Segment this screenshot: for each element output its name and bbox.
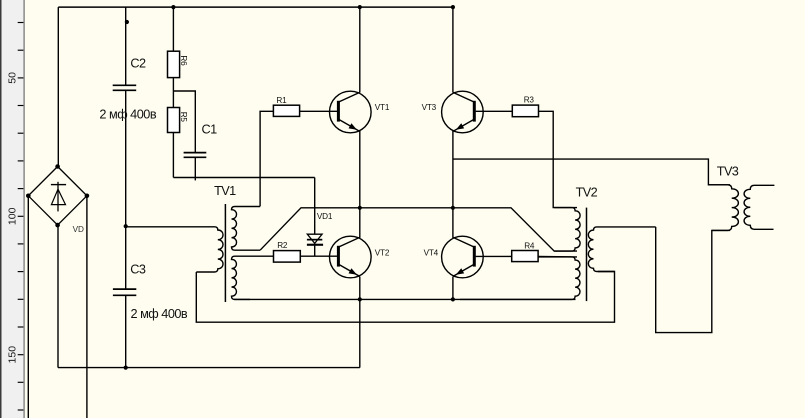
value label C3 (131, 307, 188, 321)
wire (260, 208, 577, 251)
svg-text:TV3: TV3 (717, 164, 739, 178)
svg-text:VT2: VT2 (375, 248, 390, 257)
wire (125, 90, 127, 288)
junction C3 bottom (124, 366, 128, 370)
wire (452, 277, 454, 300)
svg-text:C1: C1 (202, 123, 218, 137)
ruler (0, 0, 25, 418)
wire (172, 7, 174, 51)
wire (359, 299, 361, 367)
wire (539, 111, 578, 207)
svg-text:2 мф 400в: 2 мф 400в (131, 307, 188, 321)
diode VD1 (307, 212, 333, 246)
resistor R6 (168, 51, 188, 77)
wire (300, 110, 338, 112)
resistor R2 (274, 241, 301, 262)
wire (359, 131, 361, 238)
wire (656, 227, 730, 333)
svg-text:R3: R3 (524, 96, 535, 105)
svg-text:C2: C2 (130, 57, 146, 71)
bridge rectifier VD (26, 164, 89, 234)
junction VT2e (358, 297, 362, 301)
transformer TV2 (460, 186, 656, 302)
junction C2-C3-TV1 (124, 224, 128, 228)
wire (172, 133, 174, 178)
svg-text:150: 150 (7, 346, 19, 364)
wire (314, 178, 316, 235)
wire (196, 272, 614, 323)
resistor R3 (512, 96, 538, 117)
svg-text:C3: C3 (130, 262, 146, 276)
junction rail-VT3c (451, 5, 455, 9)
transistor VT1 (330, 91, 390, 133)
svg-text:R4: R4 (524, 241, 535, 250)
wire (172, 78, 174, 108)
wire (57, 225, 59, 368)
svg-text:50: 50 (7, 72, 19, 84)
junction VT1e rail (358, 206, 362, 210)
wire (300, 255, 337, 257)
wire (58, 6, 453, 8)
svg-text:TV1: TV1 (214, 184, 236, 198)
wire (173, 177, 314, 179)
junction VT4e (451, 297, 455, 301)
junction C2 wire (125, 20, 129, 24)
wire (452, 131, 454, 238)
transistor VT3 (422, 91, 484, 133)
wire (58, 367, 360, 369)
transistor VT2 (330, 236, 390, 278)
wire (173, 91, 195, 152)
transistor VT4 (424, 236, 484, 278)
svg-text:2 мф 400в: 2 мф 400в (99, 108, 156, 122)
svg-text:VD1: VD1 (317, 212, 333, 221)
junction rail-R6 (171, 5, 175, 9)
svg-text:VT4: VT4 (424, 248, 439, 257)
junction VT3e rail (451, 206, 455, 210)
wire (125, 7, 127, 85)
wire (359, 7, 361, 93)
svg-text:R2: R2 (277, 241, 288, 250)
capacitor C3 (113, 262, 146, 295)
svg-text:TV2: TV2 (576, 186, 598, 200)
wire (27, 196, 29, 418)
capacitor C1 (184, 123, 217, 158)
capacitor C2 (113, 57, 146, 91)
wire (314, 246, 316, 257)
resistor R4 (512, 241, 538, 261)
svg-text:R6: R6 (179, 55, 188, 66)
wire (476, 255, 512, 257)
wire (86, 196, 88, 418)
wire (538, 255, 577, 258)
wire (452, 7, 454, 93)
wire (194, 158, 196, 181)
svg-text:VT3: VT3 (422, 103, 437, 112)
wire (476, 110, 513, 112)
svg-text:VD: VD (73, 225, 84, 234)
transformer TV1 (126, 184, 274, 302)
wire (359, 277, 361, 300)
resistor R1 (273, 96, 299, 116)
wire (234, 298, 576, 300)
svg-text:VT1: VT1 (375, 103, 390, 112)
svg-text:100: 100 (7, 207, 19, 225)
svg-text:R5: R5 (179, 112, 188, 123)
wire (125, 295, 127, 367)
resistor R5 (168, 108, 188, 133)
wire (453, 159, 730, 185)
transformer TV3 (708, 164, 774, 230)
wire (260, 111, 273, 206)
value label C2 (99, 108, 156, 122)
junction rail-VT1c (358, 5, 362, 9)
svg-text:R1: R1 (276, 96, 287, 105)
wire (57, 7, 59, 167)
